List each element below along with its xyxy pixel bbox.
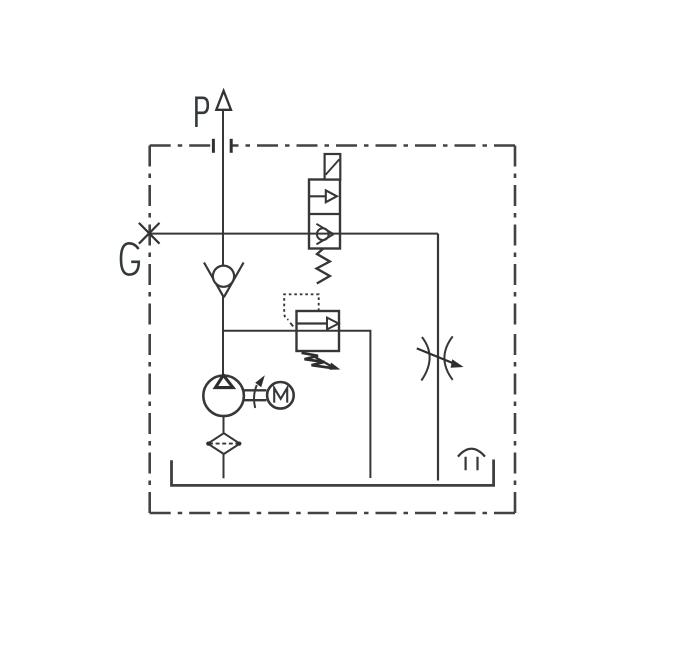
relief valve RV box	[297, 311, 340, 351]
relief valve pilot line (dashed)	[284, 294, 319, 320]
rotation arrow head	[255, 375, 265, 387]
motor M1 label (stroked glyph)	[274, 388, 287, 403]
wire: P line down from arrow through boundary to check valve	[222, 110, 224, 266]
throttle valve FV arcs	[421, 336, 452, 380]
pump P1 circle	[203, 376, 244, 417]
enclosure boundary (dash-dot frame): top edge	[150, 144, 515, 147]
solenoid valve V2 body (two positions)	[309, 180, 340, 249]
port P arrow (open triangle up)	[216, 91, 231, 110]
wire: pump outlet line (check valve to pump)	[222, 297, 224, 376]
suction filter diamond	[208, 433, 240, 454]
solenoid coil box with diagonal	[325, 154, 341, 180]
port G plug (X mark on boundary)	[139, 223, 160, 244]
filter mesh (dashed diagonal)	[209, 443, 239, 445]
enclosure boundary: bottom edge	[150, 512, 515, 515]
valve V2 bottom position: check (seat + ball)	[316, 224, 333, 245]
relief valve adjustment arrow	[314, 357, 340, 370]
valve V2 return spring	[317, 249, 330, 284]
drive shaft	[243, 390, 266, 400]
check valve V1 seat	[204, 263, 244, 298]
motor M1 circle	[267, 382, 294, 409]
filter side dots	[206, 442, 210, 446]
bulkhead crossing tick (left)	[212, 139, 215, 153]
wire: relief branch from pump line through box to tank drop	[223, 331, 370, 478]
throttle adjustment arrow	[417, 348, 464, 367]
wire: right vertical drop to throttle and tank	[437, 234, 439, 481]
tank outline	[172, 460, 494, 486]
port P label (stroked glyph)	[196, 98, 207, 127]
check valve V1 ball	[213, 266, 234, 287]
valve V2 top position: open flow arrow	[309, 190, 337, 202]
bulkhead crossing tick (right)	[230, 139, 233, 153]
wire: G line re-drawn through valve bottom box	[309, 233, 340, 235]
pilot line end tick	[290, 323, 293, 327]
wire: G line from plug to right side drop	[149, 233, 438, 235]
relief valve spring (diagonal zigzag)	[302, 353, 333, 368]
breather cap arc	[458, 449, 485, 457]
rotation direction arc	[254, 385, 257, 408]
relief valve internal arrow	[297, 318, 339, 330]
port G label (stroked glyph)	[121, 243, 139, 274]
pump P1 outlet triangle	[215, 375, 233, 387]
wire: pump suction to filter	[223, 416, 225, 434]
enclosure boundary: left edge	[148, 146, 151, 514]
wire: filter to tank	[223, 454, 225, 478]
enclosure boundary: right edge	[514, 146, 517, 514]
breather legs	[466, 457, 478, 470]
